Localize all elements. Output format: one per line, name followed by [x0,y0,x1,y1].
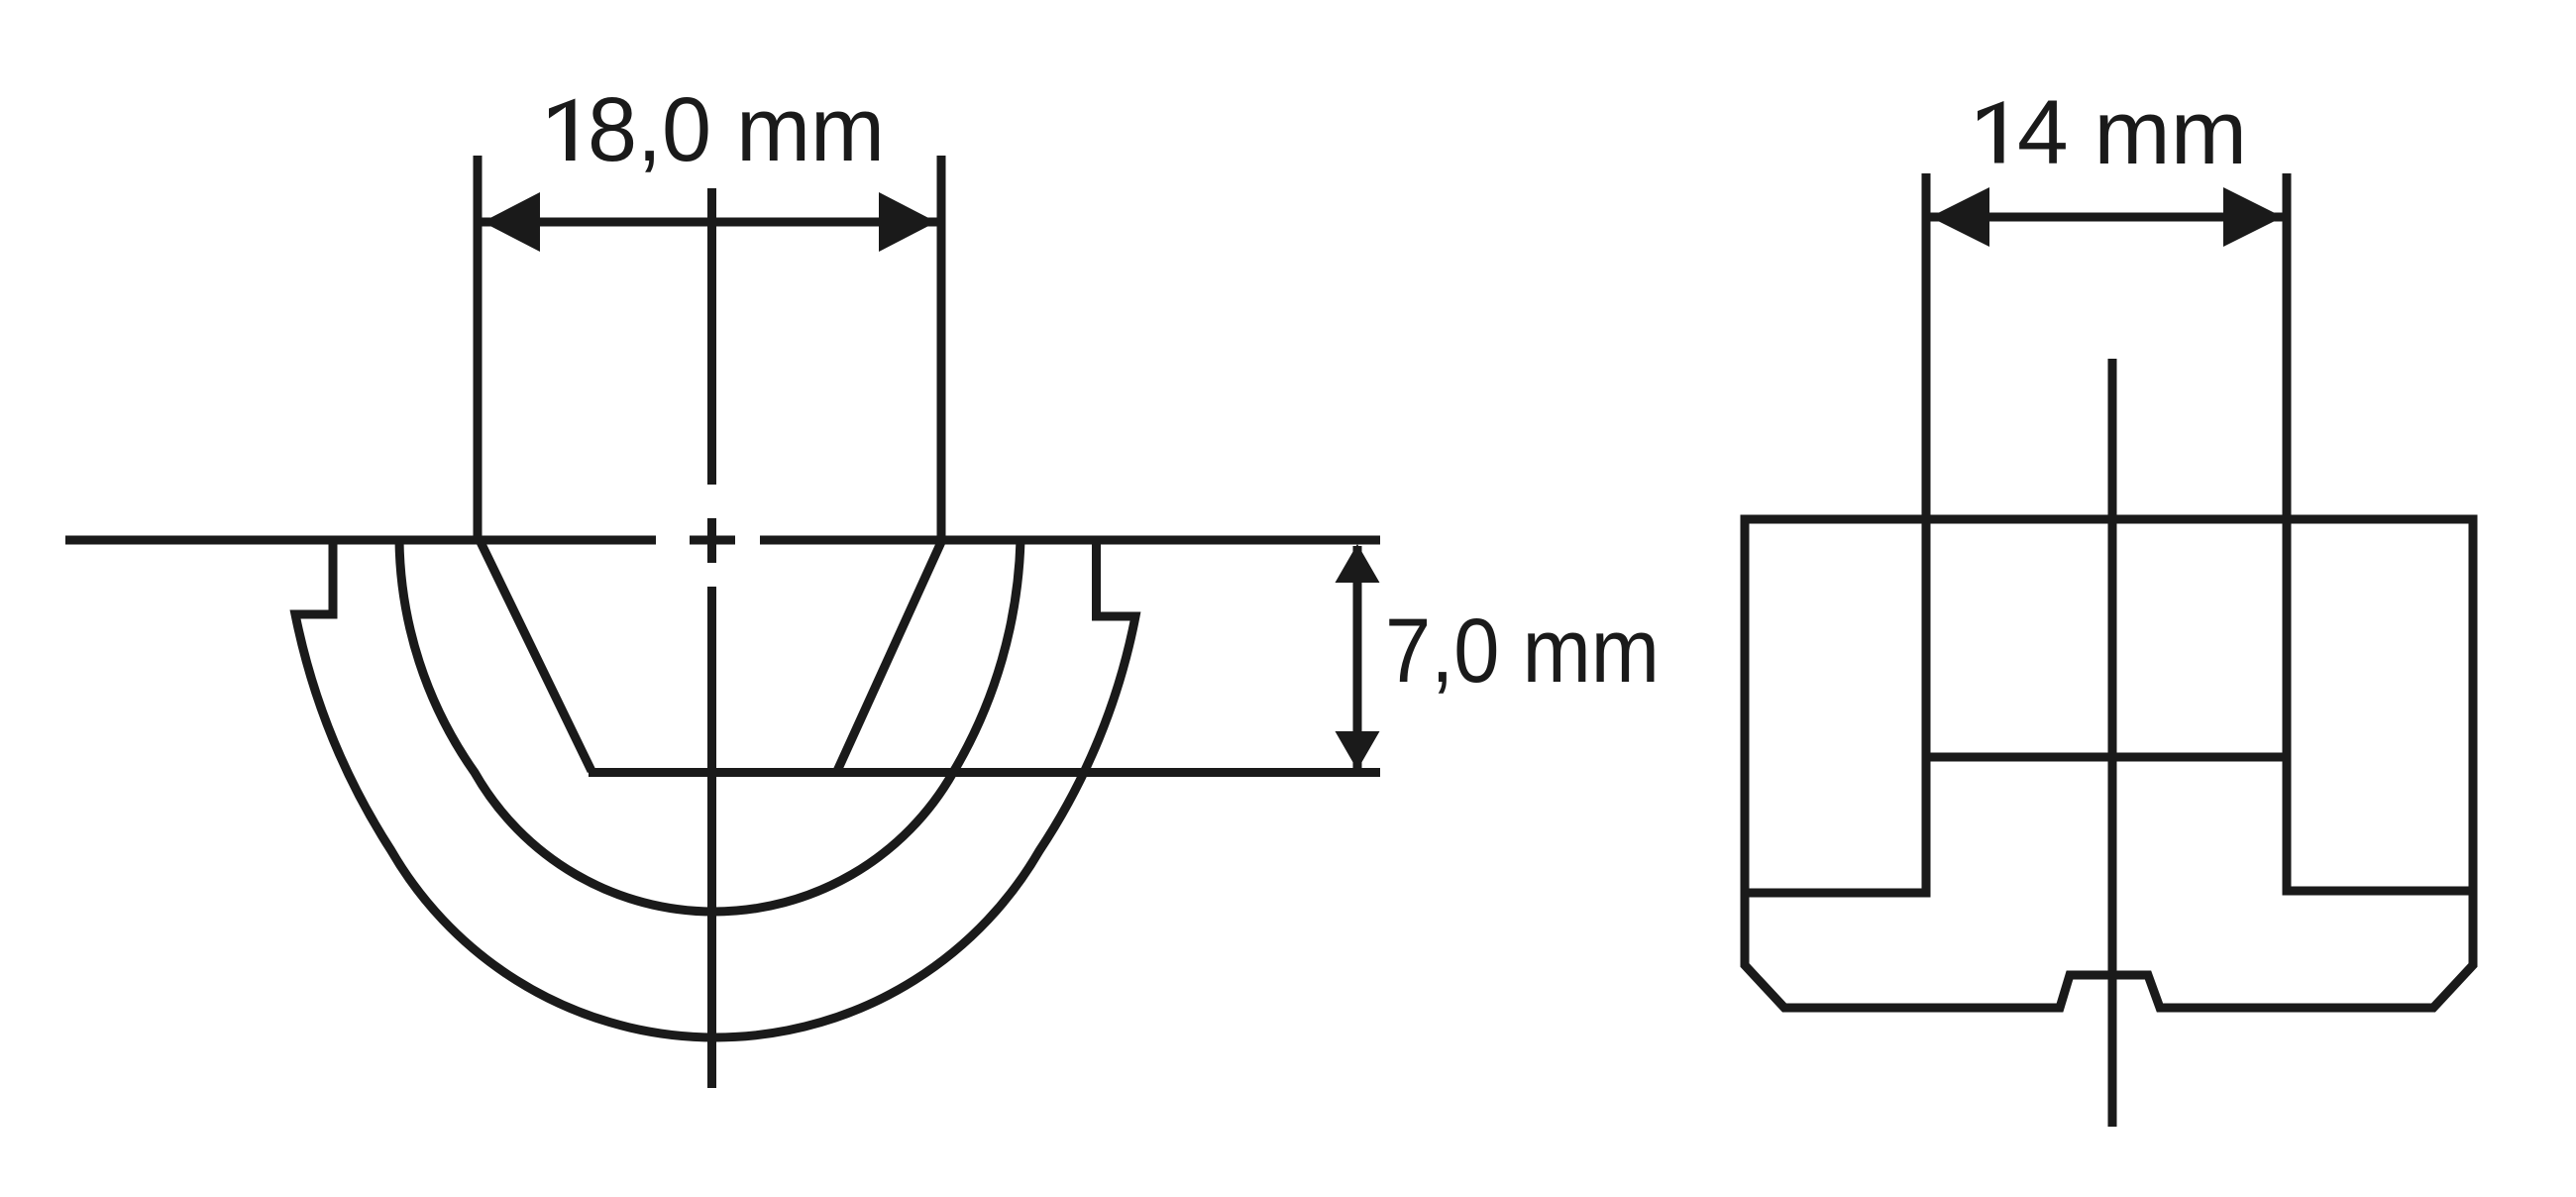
groove inner arc (blade small radius) [399,540,1020,912]
dimension 7,0 mm: bottom arrowhead [1336,731,1380,770]
right view: part outer profile (top, sides, chamfers, bottom, centring notch) [1745,519,2473,1008]
right view: anchor middle line [1926,753,2287,762]
dimension 18,0 mm: right arrowhead [879,192,936,252]
svg-text:8,0 mm: 8,0 mm [588,79,885,180]
groove bottom depth line (7,0 mm reference) [589,768,1380,777]
svg-text:4 mm: 4 mm [2017,82,2247,183]
left view: centre-cross vertical bar [707,518,716,563]
dimension 14 mm: right arrowhead [2223,187,2283,247]
left view: vertical centerline upper dash [707,188,716,485]
label 14 mm: digit 1 (custom glyph) [1978,101,2004,163]
right view: left slot edge / 14 mm extension line with left shoulder [1745,173,1926,893]
label 18,0 mm: digit 1 (custom glyph) [549,99,576,162]
left view: board surface line (left segment) [65,536,656,545]
dimension 18,0 mm: dimension line [478,218,941,227]
dimension 14 mm: dimension line [1926,213,2287,222]
groove outer profile: left step, outer arc, right step [295,540,1135,1037]
dimension 18,0 mm: left arrowhead [483,192,540,252]
dimension 7,0 mm: top arrowhead [1336,544,1380,583]
groove trapezoid: left slant wall [481,542,591,771]
groove trapezoid: right slant wall [837,542,941,771]
left view: vertical centerline lower dash [707,587,716,1088]
dimension 18,0 mm: left extension line [474,156,483,540]
dimension 18,0 mm: right extension line [937,156,946,540]
right view: right slot edge / 14 mm extension line with right shoulder [2287,173,2473,891]
right view: vertical centerline [2108,359,2117,1127]
left view: board surface line (right segment) [760,536,1380,545]
dimension 14 mm: left arrowhead [1930,187,1989,247]
dimension 7,0 mm: dimension line [1353,546,1362,768]
left view: surface line centre-cross horizontal bar [690,536,735,545]
svg-text:7,0 mm: 7,0 mm [1385,600,1660,702]
